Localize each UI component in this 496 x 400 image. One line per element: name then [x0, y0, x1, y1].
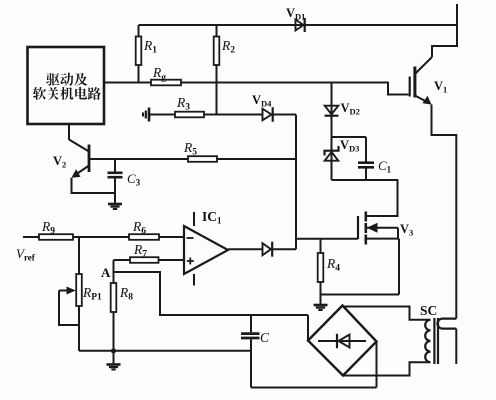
label SC: [420, 303, 437, 318]
capacitor C: [241, 315, 260, 388]
label C3: [127, 171, 141, 188]
wire op-amp output: [228, 248, 263, 250]
transistor V3 source: [366, 238, 399, 240]
transistor V1 gate bar: [409, 77, 411, 97]
wire C bottom: [251, 342, 377, 388]
resistor R6: [129, 234, 184, 240]
label VD2: [341, 101, 360, 117]
wire top rail: [139, 24, 458, 26]
capacitor C3: [108, 159, 123, 203]
zener VD3: [325, 146, 339, 161]
label A: [101, 265, 111, 280]
label box line1 驱动及: [46, 73, 87, 86]
op-amp IC1: [184, 212, 228, 286]
bridge diode: [318, 334, 366, 348]
ground below C3: [108, 204, 122, 209]
node A wire: [113, 260, 115, 283]
transistor V2 bar: [88, 145, 91, 173]
transistor V3 gate bar: [357, 216, 359, 239]
transistor V3 body arrow: [366, 223, 398, 239]
resistor R9: [23, 234, 129, 240]
ground below R4: [314, 295, 328, 311]
label R5: [183, 140, 197, 158]
label IC1: [202, 209, 222, 226]
label R2: [221, 38, 235, 56]
wire ground rail: [79, 350, 251, 352]
wire node column: [295, 115, 297, 250]
wire SC primary down: [455, 329, 457, 364]
bridge rectifier: [308, 306, 377, 376]
resistor Rg: [151, 80, 181, 86]
transistor V1 emitter: [415, 96, 432, 105]
label V2: [53, 154, 66, 170]
wire VD4 to node: [273, 114, 296, 116]
transformer SC primary loop: [438, 319, 457, 329]
label RP1: [82, 285, 102, 303]
wire VD3 bottom to drain: [332, 180, 398, 216]
svg-text:C: C: [260, 330, 270, 345]
label box line2 软关机电路: [33, 87, 101, 100]
label R3: [176, 95, 190, 113]
transformer SC core: [434, 318, 438, 364]
label V3: [400, 222, 413, 238]
resistor R3: [149, 112, 263, 118]
label R1: [143, 38, 157, 56]
transistor V1 body bar: [413, 67, 416, 98]
ground below R8: [107, 351, 121, 370]
diode VD2: [325, 106, 339, 116]
ground R3 left: [143, 108, 149, 122]
capacitor C1: [358, 163, 374, 180]
transistor V3 channel: [364, 212, 367, 245]
svg-text:SC: SC: [420, 303, 437, 318]
label R8: [119, 285, 133, 303]
label Rg: [152, 65, 166, 83]
resistor R4: [318, 239, 324, 295]
wire V1 emitter down: [432, 105, 457, 319]
transistor V1 collector: [415, 57, 432, 74]
wire A branch: [114, 272, 309, 315]
resistor R2: [214, 25, 220, 115]
label V1: [434, 79, 447, 95]
wire bridge top to SC: [343, 307, 431, 320]
resistor R7: [114, 257, 185, 263]
wire A branch to bridge: [307, 315, 309, 341]
svg-text:A: A: [101, 265, 111, 280]
label C1: [378, 158, 392, 175]
resistor R1: [136, 25, 142, 83]
label R4: [326, 256, 340, 274]
box drive circuit: [28, 47, 105, 124]
wire V2 emitter loop: [72, 178, 116, 193]
potentiometer RP1 arrow: [59, 287, 79, 326]
wire gate V1 from Rg: [104, 83, 409, 95]
diode VD4: [263, 107, 273, 122]
label Vref: [16, 246, 36, 263]
label VD4: [252, 93, 272, 109]
wire bridge bottom to SC: [343, 362, 431, 375]
wire box bottom stub: [68, 124, 70, 140]
label C: [260, 330, 270, 345]
junction dot: [111, 348, 116, 353]
label R6: [132, 219, 146, 237]
wire V3 source down: [398, 239, 400, 295]
transistor V2 emitter: [72, 166, 90, 178]
resistor R8: [111, 283, 117, 351]
transistor V2 collector: [69, 140, 89, 152]
resistor R5: [188, 156, 296, 162]
label VD3: [340, 138, 359, 154]
label VD1: [286, 6, 305, 22]
wire V3 gate: [296, 238, 358, 240]
diode output: [263, 242, 273, 257]
label R7: [133, 242, 147, 260]
wire R4 ground rail: [321, 294, 400, 296]
potentiometer RP1: [76, 237, 82, 351]
transformer SC secondary coil: [425, 320, 430, 362]
wire VD2 column: [331, 83, 333, 181]
wire C1 branch: [332, 137, 367, 162]
wire V2 base: [89, 158, 188, 160]
wire right collector rail: [432, 4, 457, 57]
wire diode to node: [273, 248, 296, 250]
label R9: [41, 219, 55, 237]
diode VD1: [296, 18, 305, 32]
